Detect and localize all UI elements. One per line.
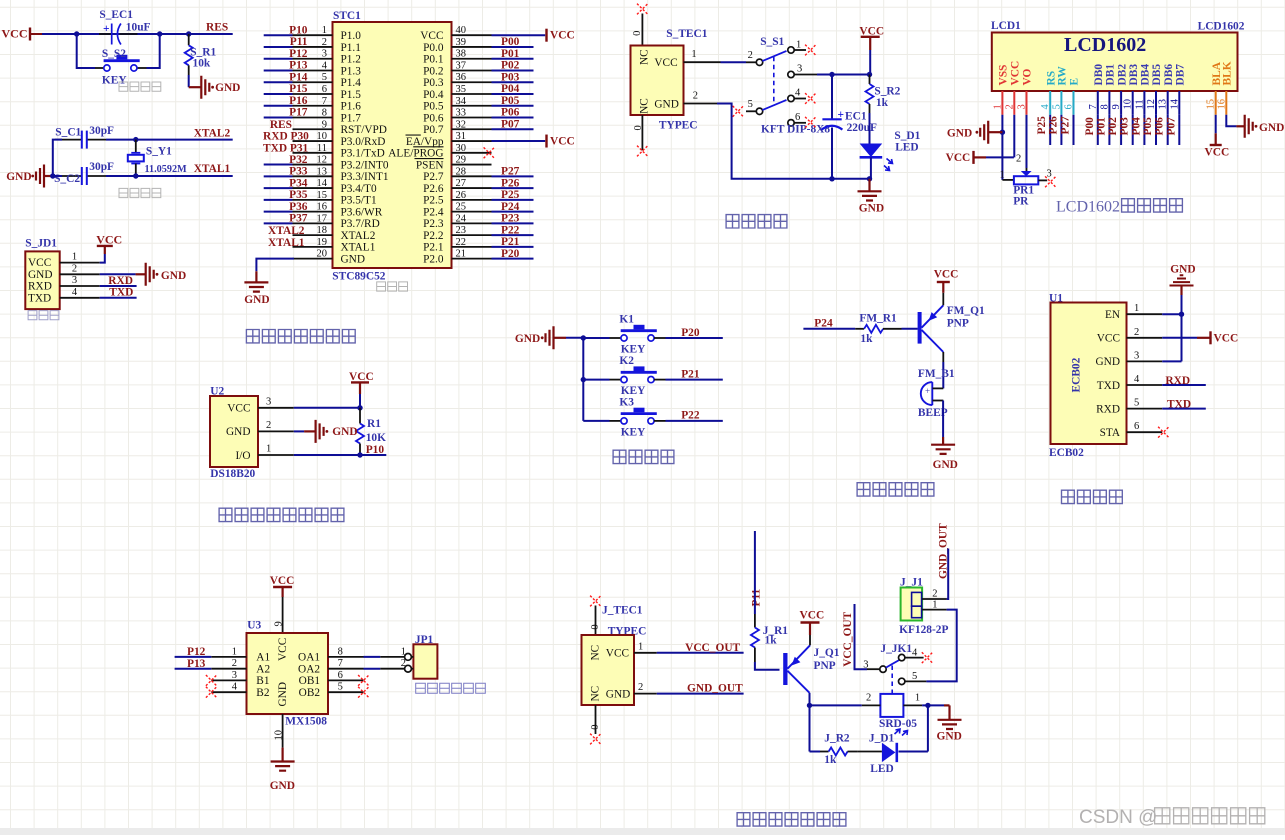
wire P07 stub	[492, 128, 534, 130]
svg-text:S_S1: S_S1	[760, 36, 784, 48]
svg-text:GND: GND	[28, 269, 52, 281]
svg-text:P00: P00	[501, 36, 520, 48]
ground (reset circuit)	[201, 76, 240, 99]
svg-text:S_C1: S_C1	[55, 126, 81, 138]
wire P21 stub	[492, 246, 534, 248]
title 蜂鸣器电路	[857, 483, 934, 496]
svg-text:1: 1	[932, 599, 937, 610]
svg-text:P27: P27	[1060, 116, 1072, 135]
svg-text:4: 4	[232, 682, 238, 693]
svg-text:10uF: 10uF	[126, 21, 151, 33]
pin 7 P1.6 of STC1	[264, 96, 362, 113]
svg-text:P26: P26	[1047, 116, 1059, 135]
wire P11 down	[754, 531, 756, 614]
svg-text:2: 2	[232, 658, 237, 669]
svg-text:TXD: TXD	[109, 287, 133, 299]
svg-text:6: 6	[795, 112, 800, 123]
no-connect X pin6 of S_S1	[805, 117, 816, 128]
svg-text:34: 34	[456, 96, 467, 107]
no-connect X pin1 of S_S1	[805, 45, 816, 56]
svg-text:TXD: TXD	[1097, 380, 1120, 392]
svg-text:11.0592M: 11.0592M	[145, 164, 188, 175]
svg-text:P3.2/INT0: P3.2/INT0	[341, 159, 389, 171]
svg-text:P17: P17	[289, 107, 308, 119]
pin 36 P0.3 of STC1	[423, 72, 491, 89]
svg-text:+: +	[103, 23, 110, 35]
svg-text:3: 3	[1047, 169, 1052, 180]
svg-text:37: 37	[456, 60, 467, 71]
svg-text:GND: GND	[1096, 356, 1120, 368]
svg-text:7: 7	[338, 658, 343, 669]
ground (bluetooth)	[1170, 263, 1196, 295]
svg-text:P36: P36	[289, 201, 308, 213]
svg-text:4: 4	[1134, 374, 1140, 385]
resistor J_R1 1k	[751, 614, 788, 662]
pin 11 P3.1/TxD of STC1	[293, 143, 385, 160]
wire OA2 to JP1	[364, 668, 381, 670]
connector J_TEC1 TYPEC	[582, 605, 647, 705]
wire switch branch right	[147, 34, 160, 68]
wire collector down	[942, 352, 944, 388]
svg-text:S_JD1: S_JD1	[25, 238, 57, 250]
svg-text:RST/VPD: RST/VPD	[341, 124, 387, 136]
wire VCC pin2	[1162, 331, 1210, 344]
svg-text:GND: GND	[6, 171, 31, 183]
no-connect X STA	[1158, 427, 1169, 438]
no-connect X relay pin4	[922, 652, 933, 663]
resistor S_R1 10k	[185, 34, 217, 75]
svg-text:VCC: VCC	[2, 27, 28, 41]
svg-text:P0.5: P0.5	[423, 101, 444, 113]
svg-text:OA1: OA1	[298, 652, 320, 664]
svg-text:2: 2	[401, 658, 406, 669]
svg-text:P02: P02	[501, 60, 520, 72]
svg-text:P35: P35	[289, 189, 308, 201]
title 防水温度采集模块	[219, 508, 344, 521]
svg-text:2: 2	[72, 263, 77, 274]
pin 5 RXD of U1	[1096, 398, 1162, 416]
pin 27 P2.6 of STC1	[423, 178, 491, 195]
svg-text:GND: GND	[341, 253, 365, 265]
svg-text:DB5: DB5	[1151, 64, 1163, 86]
svg-text:23: 23	[456, 225, 467, 236]
svg-text:P0.4: P0.4	[423, 89, 444, 101]
svg-text:S_R2: S_R2	[874, 86, 900, 98]
svg-text:ECB02: ECB02	[1071, 357, 1083, 392]
wire coil right to gnd	[922, 704, 944, 706]
svg-text:VCC: VCC	[1010, 61, 1022, 86]
svg-text:35: 35	[456, 84, 467, 95]
svg-text:NC: NC	[639, 49, 651, 65]
svg-text:P1.4: P1.4	[341, 77, 362, 89]
svg-text:1: 1	[796, 40, 801, 51]
node C1/crystal junction	[133, 137, 138, 142]
wire VSS down	[1001, 115, 1003, 180]
wire P27 stub	[492, 175, 534, 177]
svg-text:P1.6: P1.6	[341, 101, 362, 113]
svg-text:CSDN @: CSDN @	[1079, 807, 1157, 828]
svg-text:GND: GND	[1170, 263, 1195, 275]
no-connect X OB1	[358, 675, 369, 686]
pin 2 VCC of U1	[1097, 327, 1162, 345]
no-connect X bottom of J_TEC1	[590, 734, 601, 745]
pin 16 P3.6/WR of STC1	[264, 202, 383, 219]
pin 1 A1 of U3	[211, 646, 270, 663]
svg-text:VO: VO	[1022, 69, 1034, 86]
svg-text:NC: NC	[590, 645, 602, 661]
pin 1 I/O of U2	[235, 444, 293, 462]
ground (power circuit)	[858, 191, 885, 214]
overline EA	[406, 134, 421, 136]
svg-text:0: 0	[590, 624, 601, 629]
svg-text:P22: P22	[501, 224, 520, 236]
svg-text:RXD: RXD	[1165, 375, 1190, 387]
svg-text:19: 19	[317, 237, 328, 248]
switch S_S2 KEY	[95, 48, 147, 87]
svg-text:1: 1	[232, 646, 237, 657]
svg-text:RES: RES	[270, 119, 292, 131]
svg-text:P1.0: P1.0	[341, 30, 362, 42]
wire J_J1 pin1 to relay pin5	[926, 610, 956, 682]
svg-text:GND: GND	[270, 780, 295, 792]
svg-text:DB7: DB7	[1175, 64, 1187, 86]
svg-text:5: 5	[322, 72, 327, 83]
svg-text:P3.4/T0: P3.4/T0	[341, 183, 377, 195]
wire GND_OUT up	[947, 549, 949, 600]
svg-text:I/O: I/O	[235, 450, 250, 462]
svg-text:GND: GND	[332, 426, 357, 438]
svg-text:P20: P20	[681, 327, 700, 339]
pin 28 P2.7 of STC1	[423, 166, 491, 183]
node junction right	[157, 31, 162, 36]
wire S_R1 to ground	[189, 75, 202, 87]
svg-text:P1.3: P1.3	[341, 65, 362, 77]
svg-text:P3.5/T1: P3.5/T1	[341, 195, 377, 207]
svg-text:15: 15	[1206, 99, 1217, 110]
svg-text:12: 12	[1146, 99, 1157, 110]
pin 1 VCC of J_TEC1	[634, 641, 657, 653]
svg-text:S_TEC1: S_TEC1	[666, 28, 707, 40]
pin 8 DB1 of LCD1	[1099, 64, 1116, 145]
pin 0 top of J_TEC1	[590, 606, 601, 636]
svg-text:39: 39	[456, 37, 467, 48]
svg-text:40: 40	[456, 25, 467, 36]
svg-text:U3: U3	[247, 620, 261, 632]
pin 4 B2 of U3	[211, 682, 270, 699]
svg-text:P0.2: P0.2	[423, 65, 444, 77]
svg-text:0: 0	[632, 31, 643, 36]
wire RXD pin to TXD	[1162, 408, 1206, 410]
svg-text:P27: P27	[501, 166, 520, 178]
title 蓝牙模块	[1062, 490, 1123, 503]
svg-text:GND: GND	[933, 459, 958, 471]
pin 22 P2.1 of STC1	[423, 237, 491, 254]
svg-text:2: 2	[866, 693, 871, 704]
wire keys gnd rail	[566, 338, 583, 421]
pin 16 BLK of LCD1	[1216, 61, 1233, 114]
wire TXD pin to RXD	[1162, 384, 1206, 386]
no-connect X pot pin3	[1045, 176, 1056, 187]
svg-text:MX1508: MX1508	[285, 716, 327, 728]
svg-text:STA: STA	[1100, 427, 1121, 439]
svg-text:P0.6: P0.6	[423, 112, 444, 124]
wire pin20 to ground	[256, 259, 294, 283]
svg-text:VCC: VCC	[270, 575, 295, 587]
svg-text:1k: 1k	[876, 97, 889, 109]
pin 9 RST/VPD of STC1	[293, 119, 387, 136]
svg-text:LCD1602: LCD1602	[1198, 21, 1245, 33]
node C2/crystal junction	[133, 173, 138, 178]
wire P02 stub	[492, 69, 534, 71]
pin 0 bottom of J_TEC1	[590, 705, 601, 734]
pin 6 STA of U1	[1100, 421, 1163, 439]
svg-text:17: 17	[317, 213, 328, 224]
no-connect X B1	[206, 675, 217, 686]
svg-text:P24: P24	[814, 317, 833, 329]
svg-text:15: 15	[317, 190, 328, 201]
ground (mcu)	[244, 282, 269, 306]
pin 20 GND of STC1	[293, 249, 365, 266]
svg-text:13: 13	[317, 166, 328, 177]
wire P12	[175, 656, 212, 658]
svg-text:4: 4	[912, 647, 918, 658]
wire P00 stub	[492, 46, 534, 48]
wire BLK to ground	[1226, 115, 1236, 127]
wire coil to collector junction	[810, 704, 862, 706]
connector S_TEC1 TYPEC	[631, 28, 708, 131]
svg-text:FM_R1: FM_R1	[859, 313, 897, 325]
svg-text:22: 22	[456, 237, 467, 248]
svg-text:S_D1: S_D1	[894, 130, 920, 142]
svg-text:P3.0/RxD: P3.0/RxD	[341, 136, 386, 148]
svg-text:VCC: VCC	[550, 30, 575, 42]
wire P04 stub	[492, 93, 534, 95]
svg-text:FM_Q1: FM_Q1	[947, 305, 985, 317]
pin 39 P0.0 of STC1	[423, 37, 491, 54]
pin 3 VCC of U2	[227, 396, 294, 414]
connector J_J1 KF128-2P	[899, 577, 948, 636]
wire C2 to XTAL1	[106, 175, 233, 177]
watermark CSDN	[1079, 807, 1265, 828]
svg-text:P11: P11	[290, 36, 308, 48]
svg-text:FM_B1: FM_B1	[918, 368, 955, 380]
pin 6 E of LCD1	[1064, 78, 1081, 146]
connector S_JD1	[25, 238, 59, 310]
svg-text:1: 1	[638, 641, 643, 652]
svg-text:VCC: VCC	[934, 269, 959, 281]
wire P06 stub	[492, 117, 534, 119]
svg-text:P22: P22	[681, 410, 700, 422]
svg-text:0: 0	[590, 724, 601, 729]
svg-text:3: 3	[1017, 104, 1028, 109]
svg-text:P03: P03	[501, 71, 520, 83]
svg-text:GND: GND	[859, 203, 884, 215]
wire collector to coil row	[809, 693, 811, 706]
svg-text:25: 25	[456, 202, 467, 213]
pin 13 P3.3/INT1 of STC1	[264, 166, 389, 183]
pin 4 RS of LCD1	[1040, 71, 1057, 145]
svg-text:RS: RS	[1045, 71, 1057, 86]
svg-text:P2.2: P2.2	[423, 230, 444, 242]
pin 10 DB3 of LCD1	[1123, 64, 1140, 145]
pin 10 P3.0/RxD of STC1	[293, 131, 386, 148]
svg-text:P37: P37	[289, 213, 308, 225]
pin 4 TXD of U1	[1097, 374, 1162, 392]
svg-text:P2.5: P2.5	[423, 195, 444, 207]
svg-text:P3.7/RD: P3.7/RD	[341, 218, 380, 230]
svg-text:P25: P25	[501, 189, 520, 201]
svg-text:P0.3: P0.3	[423, 77, 444, 89]
pin 30 ALE/PROG of STC1	[388, 143, 491, 160]
pin 3 VO of LCD1	[1017, 69, 1034, 115]
relay coil SRD-05	[862, 693, 922, 736]
pin 31 EA/Vpp of STC1	[406, 131, 492, 148]
pin 1 VSS of LCD1	[992, 65, 1009, 115]
svg-text:16: 16	[1216, 99, 1227, 110]
svg-text:J_JK1: J_JK1	[880, 643, 912, 655]
svg-text:10K: 10K	[366, 432, 386, 444]
svg-text:S_EC1: S_EC1	[99, 9, 133, 21]
svg-text:1: 1	[322, 25, 327, 36]
svg-text:4: 4	[795, 88, 801, 99]
svg-text:KFT DIP-8X8: KFT DIP-8X8	[761, 123, 830, 135]
svg-text:GND: GND	[937, 730, 962, 742]
capacitor S_C1 30pF	[55, 125, 114, 148]
ground (keys)	[515, 326, 566, 349]
svg-text:S_Y1: S_Y1	[146, 145, 172, 157]
svg-text:GND: GND	[654, 98, 678, 110]
wire P24 to resistor	[803, 328, 855, 330]
svg-text:3: 3	[266, 396, 271, 407]
svg-text:XTAL1: XTAL1	[268, 237, 305, 249]
svg-text:P34: P34	[289, 177, 308, 189]
svg-text:TXD: TXD	[1167, 399, 1191, 411]
pin 24 P2.3 of STC1	[423, 213, 491, 230]
svg-text:P20: P20	[501, 248, 520, 260]
svg-text:VSS: VSS	[998, 65, 1010, 86]
svg-text:9: 9	[322, 119, 327, 130]
svg-text:P2.6: P2.6	[423, 183, 444, 195]
svg-text:13: 13	[1158, 99, 1169, 110]
svg-text:1k: 1k	[860, 333, 873, 345]
switch K3 KEY	[583, 396, 723, 438]
ground (buzzer)	[931, 445, 958, 471]
svg-text:P1.2: P1.2	[341, 54, 362, 66]
pin 3 B1 of U3	[211, 670, 269, 687]
overline PSEN	[415, 158, 444, 160]
svg-text:J_R2: J_R2	[824, 733, 850, 745]
svg-text:SRD-05: SRD-05	[879, 718, 917, 730]
pin 12 DB5 of LCD1	[1146, 64, 1163, 145]
svg-text:1: 1	[691, 49, 696, 60]
pin 4 P1.3 of STC1	[264, 60, 362, 77]
power port VCC (lcd left)	[946, 151, 986, 164]
svg-text:VCC_OUT: VCC_OUT	[842, 611, 854, 666]
svg-text:BLK: BLK	[1222, 61, 1234, 85]
node LED bottom junction	[867, 176, 872, 181]
pin 21 P2.0 of STC1	[423, 249, 491, 266]
svg-text:P23: P23	[501, 213, 520, 225]
pin 34 P0.5 of STC1	[423, 96, 491, 113]
svg-text:7: 7	[322, 96, 327, 107]
svg-text:0: 0	[633, 125, 644, 130]
resistor J_R2 1k	[820, 733, 857, 767]
svg-text:7: 7	[1088, 104, 1099, 109]
svg-text:3: 3	[72, 275, 77, 286]
pin 3 P1.2 of STC1	[264, 49, 362, 66]
wire P23 stub	[492, 222, 534, 224]
svg-text:RES: RES	[206, 22, 228, 34]
svg-text:4: 4	[322, 60, 328, 71]
svg-text:P1.5: P1.5	[341, 89, 362, 101]
svg-text:RXD: RXD	[28, 281, 52, 293]
svg-text:XTAL2: XTAL2	[341, 230, 376, 242]
wire pin31 to VCC	[492, 140, 546, 142]
no-connect X bottom of S_TEC1	[637, 146, 648, 157]
wire base	[902, 328, 918, 330]
svg-text:RXD P30: RXD P30	[263, 131, 309, 143]
pin 14 DB7 of LCD1	[1169, 64, 1186, 145]
no-connect X OB2	[358, 687, 369, 698]
pin 5 OB2 of U3	[299, 682, 364, 699]
pin 0 bottom of S_TEC1	[633, 115, 644, 151]
wire caps ground branch	[44, 140, 62, 176]
svg-text:3: 3	[797, 64, 802, 75]
svg-text:P2.1: P2.1	[423, 242, 443, 254]
svg-text:GND: GND	[606, 689, 630, 701]
svg-text:P06: P06	[501, 107, 520, 119]
pin 2 VCC of LCD1	[1004, 61, 1021, 115]
svg-text:14: 14	[1169, 98, 1180, 109]
svg-text:RW: RW	[1057, 66, 1069, 86]
svg-text:GND: GND	[244, 294, 269, 306]
svg-text:24: 24	[456, 213, 467, 224]
svg-text:LCD1602: LCD1602	[1064, 34, 1146, 56]
svg-text:GND: GND	[515, 333, 540, 345]
svg-text:2: 2	[693, 90, 698, 101]
svg-text:9: 9	[1111, 104, 1122, 109]
no-connect X top of S_TEC1	[637, 4, 648, 15]
svg-text:KEY: KEY	[621, 385, 646, 397]
node junction left	[74, 31, 79, 36]
resistor R1 10K	[356, 408, 386, 455]
pin 13 DB6 of LCD1	[1158, 64, 1175, 145]
svg-text:+: +	[838, 109, 845, 121]
svg-text:2: 2	[1016, 154, 1021, 165]
pin 40 VCC of STC1	[420, 25, 491, 42]
wire OA1 to JP1	[364, 656, 381, 658]
pin 2 A2 of U3	[211, 658, 270, 675]
pin 8 OA1 of U3	[298, 646, 363, 663]
svg-text:2: 2	[266, 420, 271, 431]
svg-text:OA2: OA2	[298, 664, 320, 676]
svg-text:VCC: VCC	[420, 30, 443, 42]
pin 11 DB4 of LCD1	[1134, 64, 1151, 145]
svg-text:P10: P10	[289, 24, 308, 36]
svg-text:KEY: KEY	[621, 343, 646, 355]
svg-text:LCD1: LCD1	[991, 20, 1021, 32]
svg-text:R1: R1	[367, 418, 381, 430]
svg-text:P01: P01	[501, 48, 520, 60]
svg-text:18: 18	[317, 225, 328, 236]
lcd LCD1 body	[991, 20, 1238, 91]
potentiometer PR1	[1000, 154, 1052, 208]
svg-text:P06: P06	[1154, 117, 1166, 136]
svg-text:30pF: 30pF	[89, 161, 114, 173]
pin 33 P0.6 of STC1	[423, 108, 491, 125]
svg-text:1: 1	[1134, 303, 1139, 314]
svg-text:P0.0: P0.0	[423, 42, 444, 54]
